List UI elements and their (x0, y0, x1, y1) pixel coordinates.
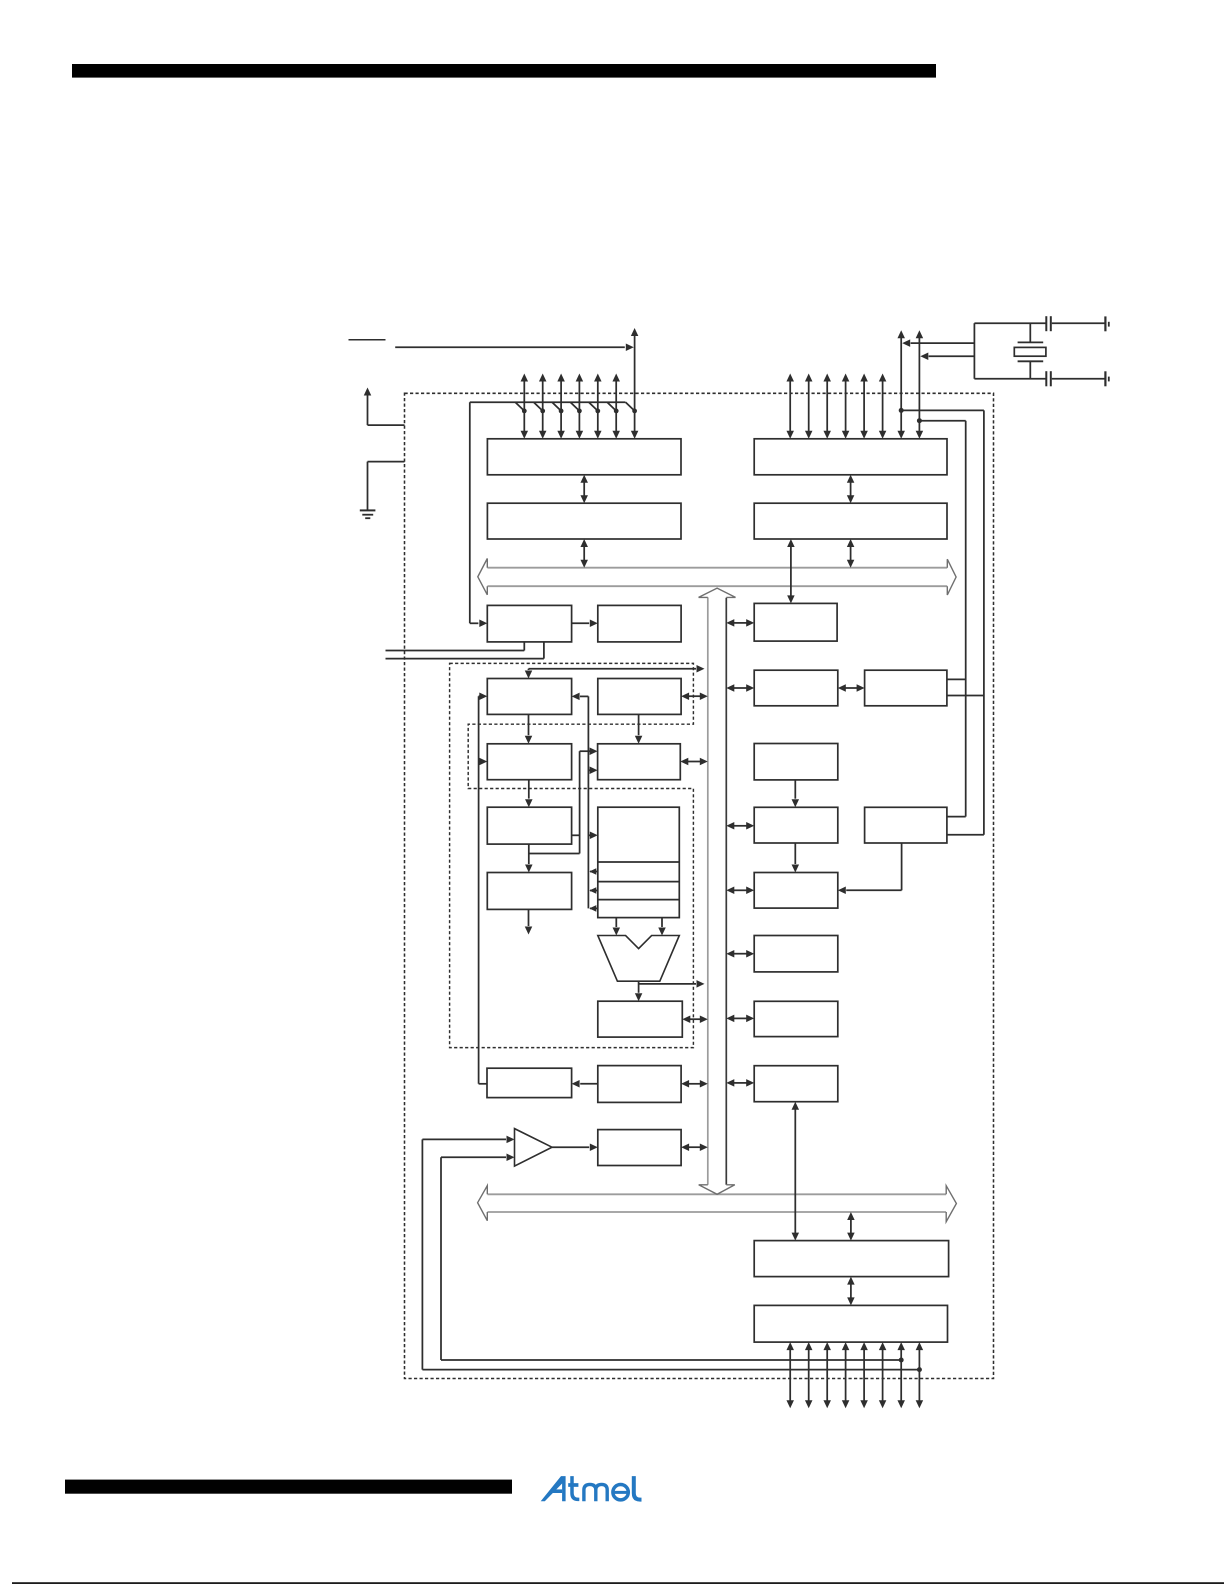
pin PB2 arrow (826, 381, 828, 432)
arrow PORT B drivers to interface (850, 482, 852, 496)
arrow stack pointer to bus (688, 695, 701, 697)
pin PD7 arrow (918, 1349, 920, 1401)
PROGRAMMING LOGIC box B9 (487, 1068, 572, 1097)
pin PB6/XTAL1 tall arrow (900, 337, 902, 432)
control lines output arrow (528, 909, 530, 926)
pin PC5 arrow (615, 381, 617, 432)
USART box B11 (598, 1130, 681, 1166)
EEPROM box L6 (754, 1001, 838, 1036)
TWI box R1 (754, 603, 837, 641)
pin PD1 arrow (808, 1349, 810, 1401)
arrow L5 to bus (733, 953, 747, 955)
pin PB1 arrow (808, 381, 810, 432)
arrow ADC MUX to ADC (572, 622, 590, 624)
WATCHDOG TIMER box L3 (754, 807, 838, 843)
pin PD5 arrow (882, 1349, 884, 1401)
arrow B1 to instruction register (528, 714, 530, 735)
arrow registers to ALU right (661, 918, 663, 927)
CONTROL LINES box B7 (487, 873, 571, 910)
arrow B3 to instruction decoder (528, 780, 530, 799)
arrow L4 to bus (733, 889, 747, 891)
register X row connector arrow (590, 871, 598, 873)
arrow PORT B interface to top bus (850, 546, 852, 561)
top data bus right arrow outline (947, 559, 956, 595)
ground symbol (360, 509, 376, 511)
vertical data bus bottom arrow outline (699, 1185, 735, 1195)
wire R3 to XTAL2 net (947, 834, 984, 836)
ALU block (598, 936, 680, 982)
PORT C DRIVERS/BUFFERS box (487, 439, 681, 475)
vertical data bus top arrow outline (699, 588, 736, 597)
chip boundary dashed border (405, 393, 994, 1378)
arrow L1 to R2 (845, 687, 858, 689)
wire XTAL2 to PB7 (929, 355, 975, 357)
ADC channel diagonal taps with junction dots (515, 402, 524, 411)
pin PC4 arrow (597, 381, 599, 432)
INSTRUCTION DECODER box B5 (487, 807, 571, 844)
AVR CPU dashed region outline (450, 663, 694, 1047)
GPR top box B4 (598, 744, 681, 780)
node XTAL2 junction dot (917, 418, 922, 423)
wire XTAL1 to PB6 (911, 342, 975, 344)
INTERRUPT UNIT box L5 (754, 936, 838, 972)
RESET label overbar (349, 339, 386, 341)
register Z line (598, 899, 680, 901)
GENERAL PURPOSE REGISTERS box B6 (598, 807, 680, 917)
arrow status register to bus (689, 1018, 701, 1020)
ground symbol right bottom (1104, 371, 1106, 386)
MCU CTRL AND TIMING box L4 (754, 873, 838, 909)
bottom data bus gray lines (487, 1193, 946, 1195)
pin PD2 arrow (826, 1349, 828, 1401)
arrow L6 to bus (733, 1017, 747, 1019)
pin PB3 arrow (845, 381, 847, 432)
arrow PORT B interface to TWI box (790, 546, 792, 596)
GND pin wire (368, 461, 405, 463)
wire C1 to ground (1052, 322, 1105, 324)
vertical data bus right edge dark line (725, 598, 727, 1185)
wire R3 to XTAL1 net (947, 816, 966, 818)
ADC MUX box (487, 605, 571, 642)
OSCILLATOR box R3 (865, 807, 947, 843)
top black header bar (72, 64, 936, 78)
arrow PORT C interface to top bus (583, 546, 585, 561)
STATUS REGISTER box B8 (598, 1001, 683, 1037)
wire AGND out (523, 642, 525, 651)
arrow R1 to bus (733, 622, 747, 624)
wire R3 to MCU ctrl box (901, 843, 903, 890)
wire program counter to bus (529, 668, 697, 670)
pin PC6/RESET tall arrow (634, 335, 636, 432)
register Z row connector arrow (590, 907, 598, 909)
register X line (598, 861, 680, 863)
arrow B11 to bus (688, 1146, 701, 1148)
ADC box (598, 605, 681, 642)
left feedback wire to B1 and B3 (478, 696, 480, 1084)
arrow comparator output to USART box (552, 1146, 589, 1148)
register Y row connector arrow (590, 890, 598, 892)
wire decoder net A (579, 751, 581, 853)
node XTAL1 junction dot (899, 408, 904, 413)
TIMERS/COUNTERS box L1 (754, 670, 838, 706)
bottom black bar (65, 1480, 512, 1494)
pin PD6 arrow (900, 1349, 902, 1401)
pin PC3 arrow (578, 381, 580, 432)
wire XTAL1 branch to oscillator (901, 409, 984, 411)
wire R2 to XTAL2 net (947, 695, 984, 697)
crystal bracket wire (973, 323, 975, 379)
bottom data bus left arrow outline (478, 1186, 488, 1221)
wire AREF out (543, 642, 545, 659)
pin PC0 arrow (523, 381, 525, 432)
arrow B4 to bus (687, 761, 701, 763)
node AIN0 junction dot on PD7 (917, 1367, 922, 1372)
arrow L3 to bus (733, 825, 747, 827)
pin PD3 arrow (845, 1349, 847, 1401)
arrow port D interface to drivers (850, 1284, 852, 1299)
arrow L7 to port D interface (794, 1109, 796, 1234)
bottom page rule (12, 1582, 1224, 1584)
capacitor C1 (1045, 316, 1047, 331)
arrow decoder to control box B7 (528, 844, 530, 864)
arrow bottom bus to port D interface (850, 1219, 852, 1234)
vertical data bus left edge (707, 597, 709, 1184)
INTERNAL OSCILLATOR box L2 (754, 744, 838, 780)
arrow L7 to bus (733, 1082, 747, 1084)
OSCILLATOR box R2 (865, 670, 947, 706)
Atmel logo (541, 1476, 566, 1501)
pin PB5 arrow (882, 381, 884, 432)
register Y line (598, 881, 680, 883)
arrow B2 to general registers (638, 714, 640, 735)
ground symbol right top (1104, 316, 1106, 331)
arrow B10 to B9 (580, 1083, 598, 1085)
PROGRAM COUNTER box B1 (487, 679, 571, 715)
wire C2 to ground (1052, 378, 1105, 380)
arrow L2 to L3 (794, 780, 796, 799)
INSTRUCTION REGISTER box B3 (487, 744, 571, 780)
wire R2 to XTAL1 net (947, 678, 966, 680)
wire ALU to status register and bus (638, 981, 640, 993)
bottom data bus right arrow outline (946, 1186, 956, 1222)
crystal Y1 (1029, 323, 1031, 342)
arrow registers to ALU left (615, 918, 617, 927)
VCC pin arrow (364, 388, 372, 396)
top data bus left arrow outline (478, 559, 488, 595)
analog comparator triangle (515, 1129, 553, 1167)
wire comparator input AIN1 (441, 1156, 506, 1158)
node AIN1 junction dot on PD6 (899, 1358, 904, 1363)
pin PB4 arrow (863, 381, 865, 432)
pin PB0 arrow (789, 381, 791, 432)
capacitor C2 (1045, 371, 1047, 386)
arrow PORT C drivers to interface (583, 482, 585, 496)
top data bus gray lines (487, 567, 947, 569)
STACK POINTER box B2 (598, 679, 681, 715)
PORT D DIGITAL INTERFACE box (754, 1241, 948, 1277)
arrow L3 to L4 (794, 843, 796, 864)
pin PB7/XTAL2 tall arrow (918, 337, 920, 432)
arrow L1 to bus (733, 687, 747, 689)
wire B1 right to decoder net (587, 696, 589, 908)
SPI box B10 (598, 1066, 681, 1103)
wire XTAL2 branch to oscillator (919, 420, 965, 422)
PORT D DRIVERS/BUFFERS box (754, 1305, 947, 1342)
pin PC2 arrow (560, 381, 562, 432)
PORT B DRIVERS/BUFFERS box (754, 439, 947, 475)
ADC mux feed wire (470, 401, 626, 403)
SPI box L7 (754, 1066, 838, 1102)
PORT B DIGITAL INTERFACE box (754, 503, 947, 539)
pin PD4 arrow (863, 1349, 865, 1401)
wire RESET to PC6 pin (395, 346, 625, 348)
pin PD0 arrow (789, 1349, 791, 1401)
wire comparator input AIN0 (422, 1138, 506, 1140)
pin PC1 arrow (542, 381, 544, 432)
PORT C DIGITAL INTERFACE box (487, 503, 681, 539)
arrow B10 to bus (688, 1083, 701, 1085)
